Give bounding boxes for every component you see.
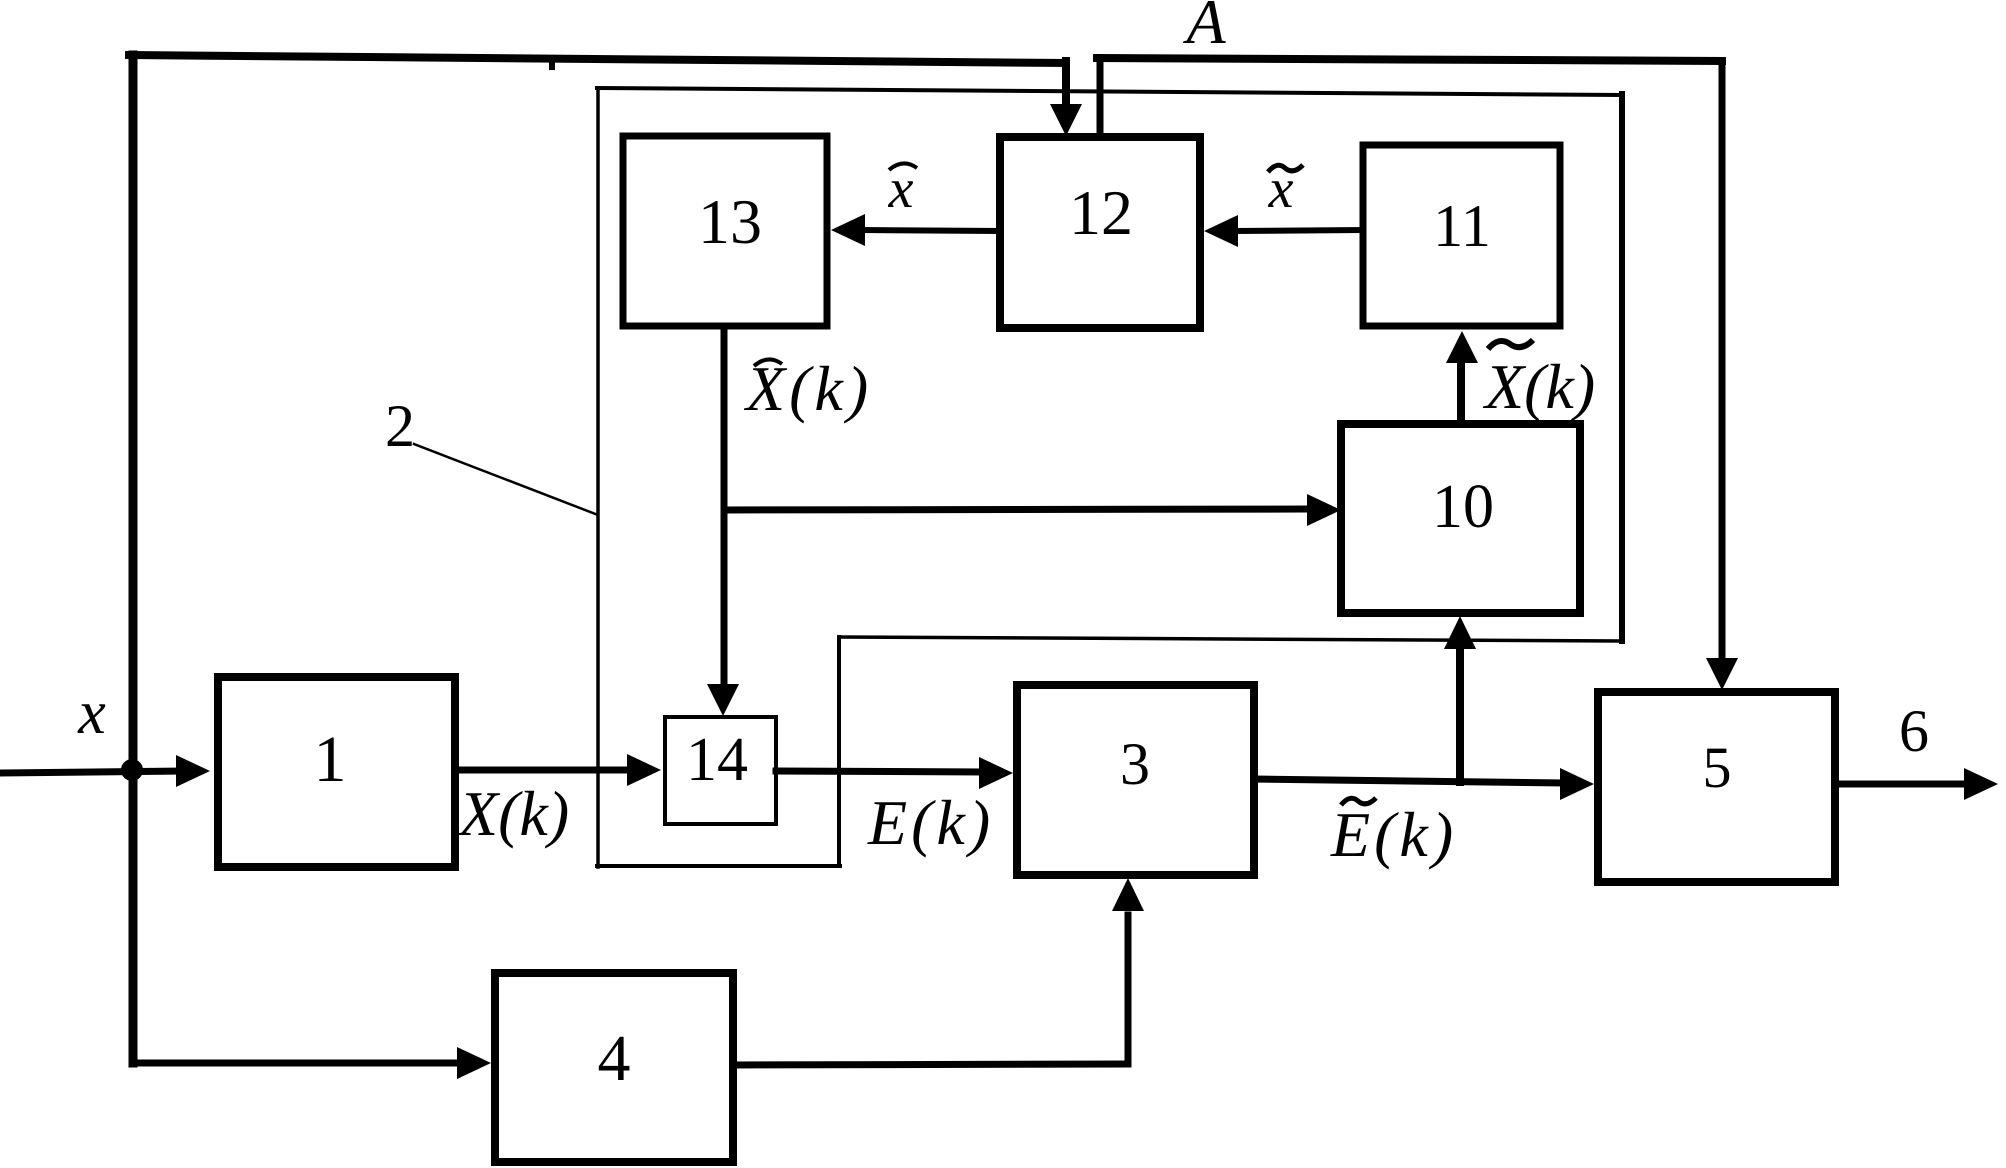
svg-text:11: 11 xyxy=(1433,193,1491,259)
wire input x xyxy=(2,771,182,773)
svg-text:6: 6 xyxy=(1899,698,1929,764)
wire block14 to block3 E(k) xyxy=(776,771,981,772)
wire block3 to block5 E~(k) xyxy=(1254,779,1562,783)
node A feedback: up from block 12 top xyxy=(1097,58,1104,137)
svg-text:2: 2 xyxy=(385,393,415,459)
svg-text:X(k): X(k) xyxy=(1482,351,1595,422)
svg-text:A: A xyxy=(1182,0,1226,57)
wire outer left vertical xyxy=(129,55,138,1063)
boundary 2 (inner dashed region outline) xyxy=(596,88,600,867)
wire block5 output 6 xyxy=(1835,781,1966,788)
wire outer top horizontal xyxy=(129,55,1066,63)
svg-text:x: x xyxy=(77,679,106,747)
svg-text:E(k): E(k) xyxy=(1330,799,1457,870)
wire block11 to block12 x~ xyxy=(1236,230,1363,231)
node junction dot xyxy=(121,759,143,781)
block 4 xyxy=(495,973,733,1162)
wire block1 to block14 X(k) xyxy=(455,767,629,774)
wire bottom to block 4 xyxy=(133,1060,459,1067)
block 13 xyxy=(623,136,827,326)
block 10 xyxy=(1341,424,1580,613)
block 12 xyxy=(1000,137,1200,328)
wire A right vertical down to block 5 xyxy=(1719,61,1726,660)
wire junction up into block10 bottom xyxy=(1456,648,1464,782)
svg-text:E(k): E(k) xyxy=(867,787,994,858)
block 5 xyxy=(1598,692,1835,882)
wire block12 to block13 x^ xyxy=(863,230,1000,231)
wire block13 branch right to block10 xyxy=(724,509,1309,510)
block 14 xyxy=(665,717,776,824)
svg-text:12: 12 xyxy=(1069,177,1133,248)
block 11 xyxy=(1363,145,1560,326)
block 1 xyxy=(218,677,455,867)
wire A top horizontal xyxy=(1097,58,1722,61)
svg-text:3: 3 xyxy=(1120,731,1150,797)
leader line for label 2 xyxy=(414,444,598,515)
svg-text:1: 1 xyxy=(314,723,347,796)
svg-text:4: 4 xyxy=(598,1022,631,1095)
wire down into block 12 top xyxy=(1062,61,1070,106)
svg-text:14: 14 xyxy=(686,726,748,794)
block 3 xyxy=(1017,685,1254,875)
wire block13 down to block14 X^(k) xyxy=(721,326,728,685)
wire block10 up to block11 X~(k) xyxy=(1457,360,1465,424)
svg-text:X(k): X(k) xyxy=(743,353,872,424)
wire block4 output to block3 bottom xyxy=(733,1064,1128,1065)
svg-text:10: 10 xyxy=(1432,473,1494,541)
svg-text:13: 13 xyxy=(698,186,762,257)
svg-text:5: 5 xyxy=(1703,735,1732,800)
svg-text:X(k): X(k) xyxy=(456,778,569,849)
scan speck xyxy=(549,62,555,70)
